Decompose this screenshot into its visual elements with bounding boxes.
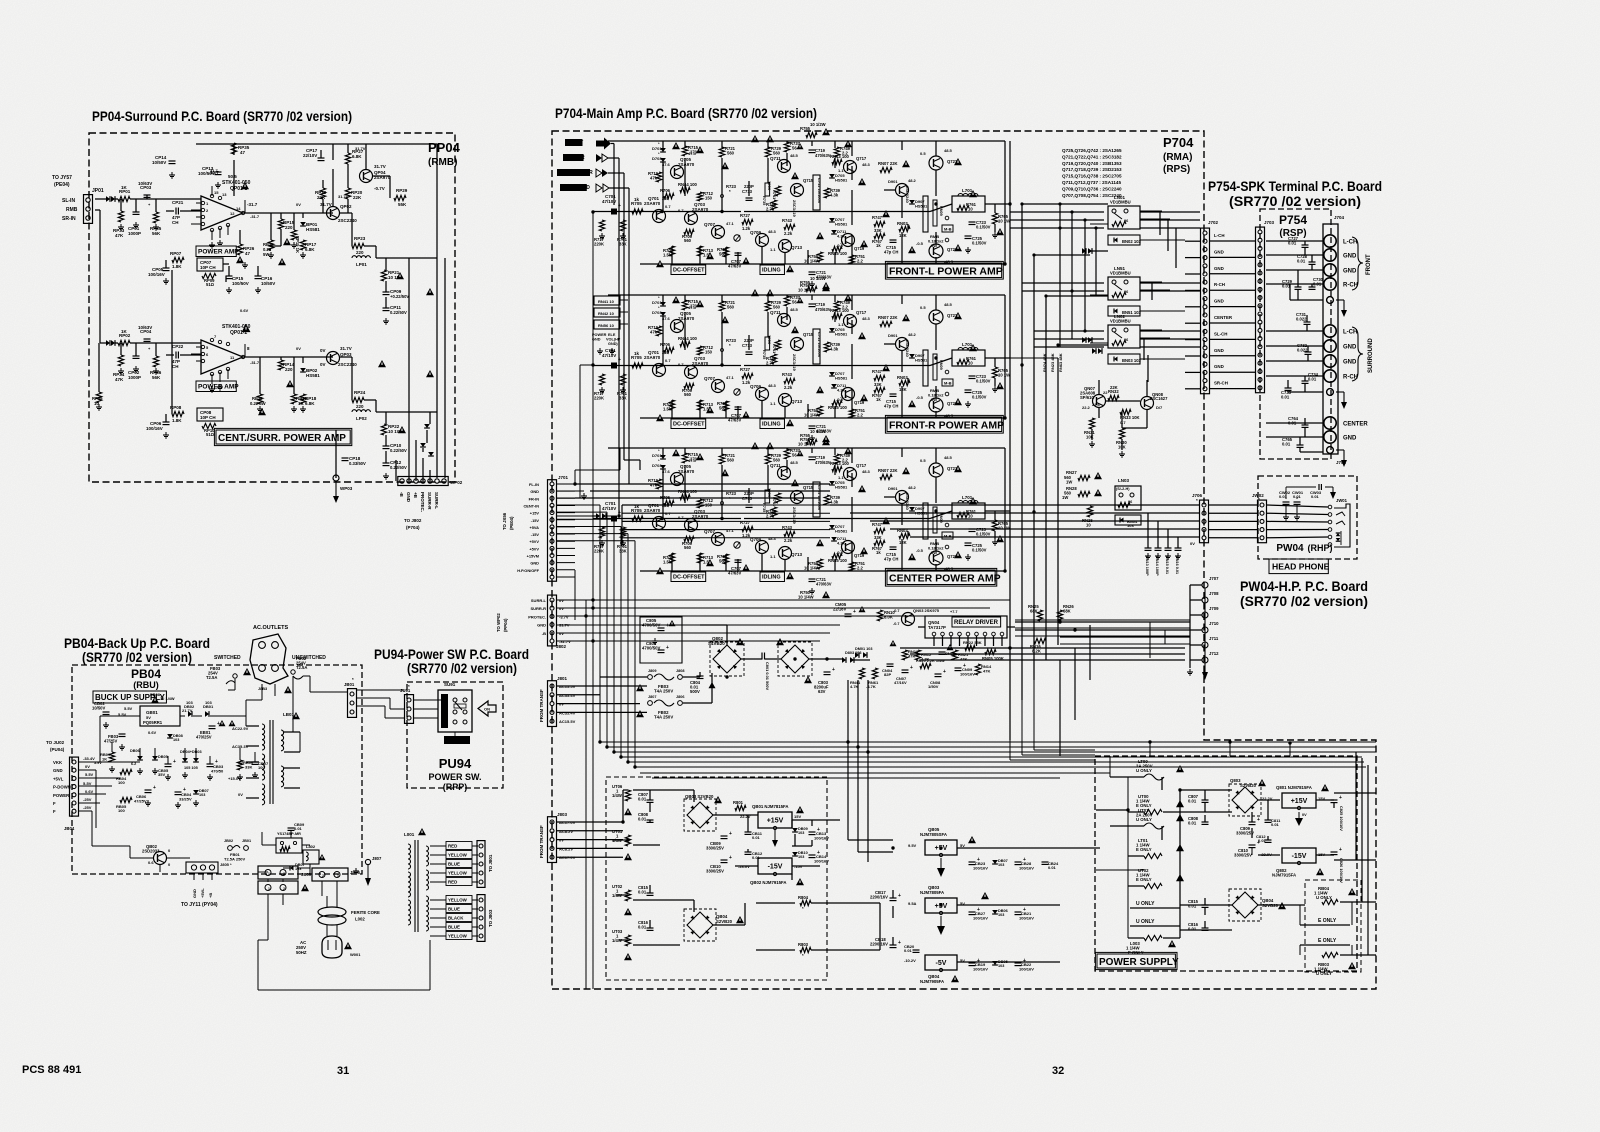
transistor Q723 blk3 (929, 551, 943, 565)
svg-text:SURR-R: SURR-R (530, 606, 546, 611)
svg-text:PROTEC.: PROTEC. (528, 614, 546, 619)
label IDLING blk3 (760, 572, 784, 582)
svg-text:RP29: RP29 (396, 188, 408, 193)
svg-text:22/16V: 22/16V (833, 607, 846, 612)
trimmer RT41 blk1 (734, 235, 740, 241)
capacitor CB05b (165, 763, 172, 765)
svg-text:Q719,Q720,Q740 : 2SB1353: Q719,Q720,Q740 : 2SB1353 (1062, 161, 1122, 166)
resistor RN41 box (594, 296, 620, 305)
svg-text:47.6: 47.6 (662, 469, 671, 474)
resistor R712 blk2 (697, 346, 702, 355)
svg-text:M-B: M-B (944, 534, 952, 539)
fuse LT00 (1144, 774, 1164, 780)
svg-text:31.7V: 31.7V (374, 164, 386, 169)
svg-text:220: 220 (356, 404, 364, 409)
svg-text:LP02: LP02 (356, 416, 367, 421)
resistor R705 blk2 (632, 363, 643, 368)
svg-text:10: 10 (968, 207, 973, 212)
capacitor CP14 (169, 160, 176, 162)
svg-text:14: 14 (236, 206, 241, 211)
wire center feed (608, 157, 619, 159)
svg-text:D703: D703 (652, 156, 662, 161)
svg-text:GND: GND (1214, 299, 1224, 304)
svg-text:48.2: 48.2 (908, 485, 917, 490)
transistor Q705 blk1 (671, 166, 684, 179)
svg-text:10 1/4W: 10 1/4W (804, 566, 820, 571)
svg-text:96: 96 (1124, 290, 1128, 294)
capacitor CW03 (1318, 484, 1320, 490)
svg-text:RMB: RMB (66, 207, 78, 213)
fuse FB02 (648, 701, 653, 706)
svg-text:(RMB): (RMB) (428, 157, 457, 168)
capacitor C807 (647, 799, 654, 801)
svg-text:-25V: -25V (83, 805, 92, 810)
capacitor C701 blk1 (611, 209, 617, 215)
transistor Q703 blk1 (685, 212, 698, 225)
svg-text:+B: +B (208, 893, 213, 898)
wire pb04 bottom (267, 879, 269, 882)
svg-text:560: 560 (684, 238, 692, 243)
svg-text:Q715: Q715 (803, 332, 814, 337)
svg-text:-1.1: -1.1 (840, 240, 848, 245)
node WP03 (333, 475, 339, 481)
ic QN04 relay driver (925, 616, 1007, 638)
svg-text:48.2: 48.2 (908, 332, 917, 337)
transistor Q719 blk1 (842, 234, 855, 247)
wire amp inner blk1 (662, 162, 664, 212)
capacitor C765 (1297, 444, 1304, 446)
diode D711 blk3 (831, 537, 837, 541)
svg-text:-0.7V: -0.7V (374, 186, 385, 191)
svg-text:+: + (666, 645, 669, 651)
svg-text:RN03: RN03 (897, 375, 908, 380)
capacitor CN07 (902, 669, 909, 671)
trimmer RT41 blk3 (734, 542, 740, 548)
warning tri b blk2 (706, 406, 714, 413)
capacitor CP09 (383, 291, 390, 293)
wire rail B (1021, 204, 1023, 700)
svg-text:0V: 0V (559, 606, 564, 611)
svg-text:0.01: 0.01 (1258, 838, 1267, 843)
resistor R803 (800, 947, 811, 952)
svg-text:J801: J801 (557, 676, 568, 681)
wire L001 BLUE 864 (430, 863, 446, 865)
svg-text:*: * (1258, 497, 1260, 502)
warning tri a blk1 (672, 142, 680, 149)
svg-text:J751: J751 (1336, 460, 1347, 465)
transistor Q707 blk3 (712, 533, 725, 546)
transistor Q719 blk3 (842, 541, 855, 554)
svg-text:47k: 47k (650, 483, 658, 488)
svg-text:1k: 1k (634, 351, 640, 356)
svg-text:T2.5A: T2.5A (296, 665, 307, 670)
wire right feeders (1361, 758, 1363, 902)
svg-text:0.5: 0.5 (920, 305, 926, 310)
svg-text:RB08: RB08 (150, 692, 161, 697)
svg-text:+15V: +15V (767, 818, 784, 825)
resistor R755 blk3 (806, 439, 817, 444)
svg-text:220P: 220P (744, 491, 754, 496)
svg-text:RP23: RP23 (354, 236, 366, 241)
terminal L-CH 0 (1324, 235, 1336, 247)
svg-text:0.01: 0.01 (1308, 377, 1317, 382)
label POWER SUPPLY (1097, 954, 1175, 968)
terminal L-CH 4 (1324, 325, 1336, 337)
resistor RN26t (1057, 610, 1062, 621)
resistor RP01 (118, 196, 130, 201)
svg-text:2SA970: 2SA970 (692, 514, 709, 519)
svg-text:1k: 1k (876, 243, 881, 248)
svg-text:33K: 33K (619, 242, 627, 247)
regulator Q802p (1282, 848, 1316, 863)
svg-text:1: 1 (337, 874, 339, 878)
diode DB07 (992, 860, 998, 864)
svg-text:L002: L002 (355, 917, 365, 922)
svg-text:1k: 1k (876, 550, 881, 555)
terminal GND 5 (1324, 340, 1336, 352)
svg-text:F: F (53, 801, 56, 806)
resistor R759 blk3 (817, 559, 822, 569)
resistor RN45 blk2 (832, 400, 842, 405)
capacitor C711 blk2 (813, 329, 820, 364)
svg-text:GND: GND (53, 768, 63, 773)
transistor Q701 blk3 (653, 517, 666, 530)
ground qb05 (940, 858, 942, 868)
transistor QN07 (1093, 395, 1106, 408)
svg-text:DB06: DB06 (130, 749, 140, 753)
svg-text:51Ω: 51Ω (206, 432, 215, 437)
wire p754 inner (1304, 241, 1306, 245)
jumper U ONLY 2 (1130, 925, 1168, 927)
svg-text:GND: GND (192, 889, 197, 898)
resistor RN43 blk2 (832, 313, 842, 318)
bridge QB04s (687, 912, 713, 938)
svg-text:(RPS): (RPS) (1163, 164, 1190, 175)
arrow ON (478, 701, 496, 716)
svg-text:HS581: HS581 (835, 529, 848, 534)
svg-text:-15V: -15V (531, 518, 540, 523)
wire pb04 grid (79, 761, 140, 763)
svg-text:GND: GND (1343, 254, 1357, 260)
svg-text:Q725,Q726,Q742 : 2SA1265: Q725,Q726,Q742 : 2SA1265 (1062, 148, 1122, 153)
resistor RP33 (118, 211, 123, 222)
svg-text:2.2: 2.2 (857, 413, 863, 418)
resistor R705 blk1 (632, 209, 643, 214)
resistor RP17 (300, 240, 305, 250)
resistor RN56 box (594, 320, 620, 329)
svg-text:RN45 100: RN45 100 (828, 558, 848, 563)
capacitor C719 blk1 (809, 149, 816, 151)
svg-text:R743: R743 (782, 218, 793, 223)
wire amp top rail blk2 (608, 294, 1005, 296)
svg-text:Q711,Q712,Q737 : 2SA1145: Q711,Q712,Q737 : 2SA1145 (1062, 180, 1121, 185)
coil LP02 (352, 410, 357, 412)
svg-text:103: 103 (998, 913, 1004, 917)
svg-text:48.3: 48.3 (768, 383, 777, 388)
transistor Q701 blk1 (653, 210, 666, 223)
capacitor C725 blk1 (965, 235, 972, 237)
svg-text:0.01: 0.01 (638, 797, 647, 802)
diode D701 blk2 (660, 302, 666, 306)
svg-text:Q801 NJM7815FA: Q801 NJM7815FA (1276, 785, 1312, 790)
resistor RN16 (1034, 638, 1046, 643)
svg-text:BLACK: BLACK (448, 916, 464, 921)
wire bridge feeds (683, 676, 700, 678)
fusible resistor UT01 (625, 835, 630, 846)
diode DB01 (205, 711, 209, 717)
svg-text:+: + (1257, 817, 1260, 823)
wire amp inner blk3 (662, 469, 664, 519)
svg-text:13: 13 (222, 192, 227, 197)
svg-text:-15V: -15V (1292, 853, 1307, 860)
svg-text:C801 0.01 500V: C801 0.01 500V (765, 662, 770, 691)
svg-text:47p CH: 47p CH (884, 404, 898, 409)
transistor Q705 blk2 (671, 320, 684, 333)
capacitor C734 (1302, 380, 1309, 382)
wire rd right v (1149, 622, 1151, 658)
capacitor C806 (658, 649, 665, 651)
svg-text:3300/25V: 3300/25V (1234, 853, 1252, 858)
svg-text:0.1/50V: 0.1/50V (972, 241, 987, 246)
svg-text:HS581: HS581 (835, 222, 848, 227)
svg-text:GND: GND (1214, 364, 1224, 369)
svg-text:47.1: 47.1 (726, 221, 735, 226)
resistor R706 blk3 (664, 500, 674, 505)
capacitor C816p (1202, 927, 1209, 929)
svg-text:SP/61C: SP/61C (1080, 395, 1094, 400)
svg-text:SURROUND: SURROUND (1368, 338, 1374, 373)
op-amp QP01-2 (201, 340, 243, 374)
svg-text:R723: R723 (726, 184, 737, 189)
transistor Q701 blk2 (653, 364, 666, 377)
svg-text:48.5: 48.5 (944, 455, 953, 460)
svg-text:+5VV: +5VV (529, 539, 539, 544)
bridge QB03 (687, 802, 713, 828)
svg-text:4.7K: 4.7K (850, 684, 859, 689)
wire relay contacts (1140, 210, 1162, 212)
svg-text:DC-OFFSET: DC-OFFSET (673, 422, 705, 428)
coil LP01 (352, 256, 357, 258)
svg-text:DC-OFFSET: DC-OFFSET (673, 575, 705, 581)
svg-text:JW01: JW01 (1336, 498, 1348, 503)
svg-text:10/50V: 10/50V (261, 281, 275, 286)
svg-text:-25V: -25V (83, 797, 92, 802)
ac outlets symbol (250, 634, 288, 684)
svg-text:J701: J701 (558, 475, 569, 480)
capacitor CN14 (1155, 547, 1162, 549)
wire right risers (1009, 740, 1011, 760)
svg-text:+5VL: +5VL (53, 776, 64, 781)
svg-text:4.3k: 4.3k (837, 234, 846, 239)
svg-text:31.7V: 31.7V (320, 202, 332, 207)
svg-text:220K: 220K (594, 549, 604, 554)
svg-text:L-CH: L-CH (1214, 233, 1225, 238)
svg-text:BN02 103: BN02 103 (1122, 239, 1142, 244)
wire j701 stubs (557, 483, 575, 485)
capacitor CP22 (175, 352, 177, 359)
transistor QP02 (327, 207, 340, 220)
capacitor C727 (1302, 244, 1309, 246)
capacitor C804 (697, 675, 704, 677)
svg-text:96: 96 (1128, 500, 1132, 504)
transistor Q721 blk1 (929, 156, 943, 170)
svg-text:JP01: JP01 (92, 188, 104, 194)
svg-text:2200/16V: 2200/16V (870, 895, 888, 900)
wire relay to J702 (1140, 211, 1200, 213)
svg-text:100K: 100K (767, 488, 772, 497)
svg-text:R747: R747 (872, 369, 883, 374)
wire j701 route1 (574, 470, 576, 484)
svg-text:(RBU): (RBU) (133, 680, 159, 690)
svg-text:RED: RED (448, 844, 457, 849)
connector JB04 (70, 757, 79, 816)
svg-text:J702: J702 (1208, 220, 1219, 225)
svg-text:SR-CH: SR-CH (1214, 381, 1228, 386)
transistor Q711 blk3 (778, 467, 791, 480)
capacitor C713 blk1 (746, 197, 753, 199)
svg-text:T4A 250V: T4A 250V (654, 689, 673, 694)
resistor RN07 blk2 (880, 321, 892, 326)
capacitor FB03c (119, 733, 126, 735)
regulator QB04b (925, 955, 957, 970)
connector J803 (548, 817, 557, 863)
resistor RP35 (231, 143, 236, 154)
svg-text:-10.2V: -10.2V (904, 958, 916, 963)
svg-text:(PE04): (PE04) (509, 516, 514, 530)
resistor RN45 blk1 (832, 246, 842, 251)
svg-text:QN03 2SK975: QN03 2SK975 (913, 608, 940, 613)
svg-text:1.1: 1.1 (770, 247, 776, 252)
svg-text:U ONLY: U ONLY (1316, 895, 1332, 900)
brace FRONT (1352, 237, 1363, 290)
terminal strip J704 (1323, 224, 1338, 454)
svg-text:47K: 47K (115, 233, 124, 238)
svg-text:P754-SPK Terminal P.C. Board: P754-SPK Terminal P.C. Board (1208, 178, 1382, 194)
svg-text:+: + (943, 669, 946, 675)
wire subwoofer feed (608, 172, 624, 174)
svg-text:FRONT: FRONT (1366, 254, 1372, 275)
wire rail A (1009, 141, 1011, 740)
resistor R727 blk2 (742, 373, 753, 378)
svg-text:HS581: HS581 (306, 227, 320, 232)
diode DB10 (792, 852, 798, 856)
svg-text:+: + (1339, 847, 1342, 853)
svg-text:47.6: 47.6 (662, 316, 671, 321)
svg-text:0.7: 0.7 (678, 208, 684, 213)
svg-text:R741: R741 (772, 344, 777, 354)
wire amp bottom rail blk1 (640, 263, 1005, 265)
svg-text:9.5A: 9.5A (908, 901, 917, 906)
svg-text:10 1/2W: 10 1/2W (810, 276, 826, 281)
diode D703 blk1 (660, 158, 666, 162)
relay LN02 (1108, 325, 1140, 348)
resistor RN44 blk3 (680, 494, 690, 499)
svg-text:0.1/50V: 0.1/50V (972, 548, 987, 553)
terminal small y300 (1327, 297, 1334, 304)
capacitor C715 blk3 (890, 546, 897, 548)
capacitor C701 blk2 (611, 363, 617, 369)
svg-text:63V: 63V (818, 689, 826, 694)
svg-text:HS581: HS581 (835, 332, 848, 337)
svg-text:48.5: 48.5 (790, 307, 799, 312)
resistor R751 blk2 (849, 409, 854, 418)
svg-text:12K: 12K (899, 540, 907, 545)
diode BP02 (300, 368, 306, 372)
wire pp04 gnd stubs (211, 242, 213, 245)
resistor RN41 (859, 668, 864, 679)
capacitor C725 blk2 (965, 389, 972, 391)
svg-text:10/63V: 10/63V (138, 325, 152, 330)
resistor R705 blk3 (632, 516, 643, 521)
svg-text:PW04-H.P. P.C. Board: PW04-H.P. P.C. Board (1240, 578, 1368, 594)
capacitor CN13 (1145, 547, 1152, 549)
svg-text:5-5V: 5-5V (83, 781, 92, 786)
ferrite core L002 (318, 907, 346, 917)
svg-text:Q721,Q722,Q741 : 2SC3182: Q721,Q722,Q741 : 2SC3182 (1062, 154, 1122, 159)
svg-text:48.5: 48.5 (944, 148, 953, 153)
diode D705 blk1 (829, 174, 835, 178)
wire bus verticals j701 (599, 505, 601, 742)
svg-text:TO JY11 (PY04): TO JY11 (PY04) (181, 902, 218, 908)
resistor RN03 blk1 (899, 226, 910, 231)
svg-text:47.1: 47.1 (726, 375, 735, 380)
svg-text:4.3k: 4.3k (837, 541, 846, 546)
board outline PP04 (89, 133, 455, 482)
svg-text:J808: J808 (676, 669, 684, 673)
svg-text:15V: 15V (794, 814, 801, 819)
svg-text:QP03: QP03 (340, 352, 352, 357)
capacitor CP06 (163, 421, 170, 423)
resistor R735 blk2 (765, 337, 770, 350)
svg-text:RP24: RP24 (354, 390, 366, 395)
svg-text:2.7k: 2.7k (766, 361, 775, 366)
label SUB-WOOFER input (557, 169, 590, 176)
resistor R759 blk1 (817, 252, 822, 262)
svg-text:0.01: 0.01 (1188, 799, 1197, 804)
svg-text:TO JX56: TO JX56 (502, 512, 507, 530)
capacitor CB21 (1015, 911, 1022, 913)
svg-text:2SC1627: 2SC1627 (1150, 396, 1168, 401)
resistor RB04b (120, 769, 132, 774)
svg-text:POWER AMP: POWER AMP (198, 249, 239, 256)
svg-text:100/16V: 100/16V (814, 836, 829, 841)
svg-text:1.5k: 1.5k (663, 253, 672, 258)
resistor R765o blk1 (992, 213, 997, 224)
resistor R715 blk3 (682, 453, 687, 463)
svg-text:100/16V: 100/16V (814, 859, 829, 864)
resistor R745 blk1 (771, 200, 776, 210)
capacitor C711 blk3 (813, 482, 820, 517)
svg-text:1K: 1K (121, 185, 128, 190)
wire relay driver outputs (900, 647, 1185, 649)
svg-text:SURROUND: SURROUND (561, 185, 590, 191)
capacitor C815 (647, 892, 654, 894)
svg-text:-B: -B (542, 631, 546, 636)
connector TO J803 strip (477, 895, 485, 942)
svg-text:103: 103 (205, 700, 212, 705)
capacitor CB06b (145, 789, 152, 791)
resistor R706 blk2 (664, 347, 674, 352)
connector JB05b (258, 881, 298, 894)
resistor RP02 (118, 340, 130, 345)
capacitor CB09c (288, 827, 295, 829)
svg-text:L-CH: L-CH (1343, 330, 1357, 336)
svg-text:Q717: Q717 (856, 463, 867, 468)
svg-text:220P: 220P (744, 338, 754, 343)
capacitor C728 (1309, 261, 1316, 263)
resistor RN32 (1108, 395, 1119, 400)
svg-text:SU91: SU91 (444, 682, 456, 687)
